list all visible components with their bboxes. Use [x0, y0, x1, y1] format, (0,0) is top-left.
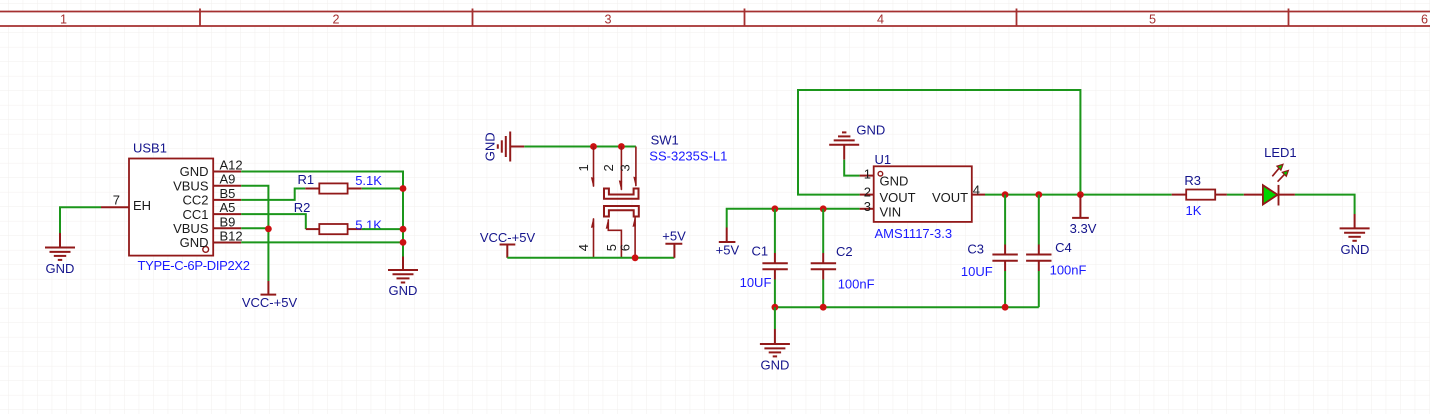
svg-text:10UF: 10UF — [961, 264, 993, 279]
svg-text:CC2: CC2 — [182, 193, 208, 208]
U1 pin1 circle mark — [878, 171, 883, 176]
LED1 triangle — [1263, 185, 1278, 204]
power flag +5V (switch right) — [665, 244, 682, 258]
resistor R2 — [294, 200, 383, 234]
svg-text:+5V: +5V — [716, 242, 740, 257]
capacitor C1 — [740, 209, 788, 307]
wire C1 bottom to ground — [774, 307, 776, 329]
svg-text:10UF: 10UF — [740, 275, 772, 290]
LED1 cathode lead — [1279, 194, 1295, 196]
junction B9/VCC — [265, 226, 272, 233]
wire A12 GND net — [241, 172, 403, 257]
USB1 pin numbers — [113, 158, 243, 244]
SW1 slider bracket top — [604, 189, 639, 199]
svg-text:LED1: LED1 — [1264, 145, 1297, 160]
USB1 pin decoration circle — [203, 247, 209, 253]
svg-text:7: 7 — [113, 193, 120, 208]
wire 3.3V output rail — [985, 194, 1172, 196]
svg-text:5: 5 — [1149, 13, 1156, 27]
svg-text:R3: R3 — [1184, 173, 1201, 188]
svg-text:VBUS: VBUS — [173, 178, 209, 193]
svg-text:1: 1 — [576, 164, 591, 171]
svg-text:1: 1 — [60, 13, 67, 27]
svg-text:2: 2 — [601, 164, 616, 171]
svg-text:6: 6 — [618, 244, 633, 251]
svg-text:3: 3 — [864, 199, 871, 214]
power flag +5V (regulator input) — [719, 228, 736, 243]
LED1 emission arrow 1 — [1272, 164, 1283, 176]
svg-text:A5: A5 — [220, 200, 236, 215]
wire B9 VBUS stub join — [241, 227, 268, 229]
svg-text:C3: C3 — [967, 241, 984, 256]
wire +5V input rail — [727, 209, 860, 228]
svg-text:2: 2 — [864, 184, 871, 199]
svg-text:VOUT: VOUT — [880, 190, 916, 205]
SW1 pin 2 — [619, 147, 622, 191]
svg-text:A12: A12 — [220, 158, 243, 173]
wire A5 CC1 to R2 — [241, 214, 306, 229]
svg-text:GND: GND — [180, 164, 209, 179]
wire switch bottom VCC net — [507, 257, 674, 259]
U1 pin numbers — [864, 166, 980, 214]
wire bottom GND rail — [775, 306, 1039, 308]
SW1 pin 5 — [606, 219, 621, 258]
svg-text:C1: C1 — [752, 243, 769, 258]
svg-text:GND: GND — [180, 235, 209, 250]
junction C3 bottom — [1002, 304, 1009, 311]
wire R1 right to GND rail — [362, 188, 403, 190]
power flag VCC-+5V (switch) — [500, 245, 516, 258]
svg-text:100nF: 100nF — [838, 276, 875, 291]
svg-text:AMS1117-3.3: AMS1117-3.3 — [875, 226, 953, 241]
svg-text:1K: 1K — [1186, 203, 1202, 218]
svg-text:CC1: CC1 — [182, 207, 208, 222]
SW1 pin 3 — [634, 147, 637, 187]
svg-text:GND: GND — [856, 123, 885, 138]
svg-text:VIN: VIN — [880, 205, 902, 220]
svg-text:GND: GND — [389, 283, 418, 298]
U1 pin1 stub — [860, 175, 874, 177]
wire EH to ground — [60, 207, 101, 233]
capacitor C2 — [811, 209, 875, 307]
svg-text:+5V: +5V — [662, 229, 686, 244]
U1 body — [874, 166, 972, 222]
svg-text:3: 3 — [618, 164, 633, 171]
svg-text:100nF: 100nF — [1050, 262, 1087, 277]
wire switch top GND net — [524, 146, 636, 148]
junction C2 bottom — [820, 304, 827, 311]
resistor R3 — [1172, 173, 1227, 218]
svg-text:GND: GND — [46, 261, 75, 276]
junction R2/GND rail — [400, 226, 407, 233]
wire B5 CC2 to R1 — [241, 189, 305, 200]
SW1 slider bracket bottom — [604, 206, 639, 217]
svg-text:U1: U1 — [875, 152, 892, 167]
U1 pin2 stub — [860, 194, 874, 196]
power flag VCC-+5V (USB) — [261, 281, 277, 295]
ground GND (LED) — [1340, 214, 1370, 241]
LED LED1 — [1244, 145, 1297, 206]
svg-text:GND: GND — [761, 358, 790, 373]
wire U1 pin1 to GND — [844, 160, 859, 176]
junction feedback/output — [1077, 191, 1084, 198]
wire A9 VBUS to VCC flag — [241, 186, 268, 281]
junction C3 top — [1002, 191, 1009, 198]
SW1 pin 4 — [591, 218, 594, 258]
LED1 emission arrow 2 — [1278, 170, 1289, 181]
ground GND (USB left) — [45, 233, 75, 260]
svg-text:5.1K: 5.1K — [355, 217, 382, 232]
svg-text:R2: R2 — [294, 200, 311, 215]
sheet ruler frame (decorative) — [0, 12, 1430, 27]
svg-text:4: 4 — [973, 183, 980, 198]
svg-text:VCC-+5V: VCC-+5V — [480, 230, 536, 245]
resistor R1 — [298, 172, 383, 194]
svg-text:R1: R1 — [298, 172, 315, 187]
SW1 pin 6 — [633, 217, 636, 258]
svg-text:VCC-+5V: VCC-+5V — [242, 295, 298, 310]
svg-text:SS-3235S-L1: SS-3235S-L1 — [649, 149, 727, 164]
junction C1 top — [772, 205, 779, 212]
svg-text:TYPE-C-6P-DIP2X2: TYPE-C-6P-DIP2X2 — [138, 258, 250, 273]
junction C2 top — [820, 205, 827, 212]
svg-text:GND: GND — [483, 132, 498, 161]
junction switch pin2 — [618, 143, 625, 150]
svg-text:C4: C4 — [1055, 240, 1072, 255]
svg-text:GND: GND — [1341, 242, 1370, 257]
svg-text:4: 4 — [877, 13, 884, 27]
capacitor C3 — [961, 195, 1018, 308]
svg-text:5.1K: 5.1K — [355, 173, 382, 188]
SW1 pin 1 — [591, 147, 594, 187]
ground GND (below C1) — [760, 329, 790, 356]
svg-text:4: 4 — [576, 244, 591, 251]
svg-text:USB1: USB1 — [133, 141, 167, 156]
ground GND (below R1 R2) — [388, 257, 418, 283]
USB1 body — [129, 159, 213, 256]
regulator U1 AMS1117-3.3 — [860, 152, 985, 241]
wire R2 right to GND rail — [362, 228, 403, 230]
junction C1 bottom — [772, 304, 779, 311]
svg-text:EH: EH — [133, 198, 151, 213]
capacitor C4 — [1026, 195, 1086, 308]
svg-text:6: 6 — [1421, 13, 1428, 27]
LED1 anode lead — [1244, 194, 1263, 196]
power flag 3.3V — [1072, 195, 1089, 218]
junction B12/GND rail — [400, 239, 407, 246]
svg-text:3: 3 — [604, 13, 611, 27]
ground GND (switch, rotated left) — [498, 132, 525, 162]
svg-text:3.3V: 3.3V — [1070, 221, 1097, 236]
svg-text:VOUT: VOUT — [932, 190, 968, 205]
ground GND (above U1, flipped) — [829, 132, 859, 159]
svg-text:GND: GND — [880, 174, 909, 189]
U1 pin3 stub — [860, 208, 874, 210]
svg-text:1: 1 — [864, 166, 871, 181]
connector USB1 TYPE-C-6P-DIP2X2 — [101, 141, 250, 274]
junction switch pin1 — [590, 143, 597, 150]
junction switch pin6 — [632, 254, 639, 261]
LED1 cathode bar — [1278, 185, 1280, 206]
USB1 pin stubs — [101, 172, 241, 243]
junction R1/GND rail — [400, 185, 407, 192]
svg-text:C2: C2 — [836, 244, 853, 259]
svg-text:B12: B12 — [220, 229, 243, 244]
wire LED1 to ground — [1295, 195, 1355, 214]
wire B12 GND net — [241, 241, 403, 243]
USB1 pin names — [133, 164, 209, 250]
svg-text:A9: A9 — [220, 172, 236, 187]
U1 pin names — [880, 174, 969, 220]
switch SW1 SS-3235S-L1 — [576, 133, 727, 258]
svg-text:SW1: SW1 — [651, 133, 679, 148]
U1 pin4 stub — [972, 194, 985, 196]
junction C4 top — [1035, 191, 1042, 198]
svg-text:B5: B5 — [220, 186, 236, 201]
svg-text:VBUS: VBUS — [173, 221, 209, 236]
svg-text:2: 2 — [332, 13, 339, 27]
wire R3 to LED1 — [1227, 194, 1244, 196]
svg-text:B9: B9 — [220, 214, 236, 229]
wire VOUT feedback loop — [798, 90, 1080, 195]
